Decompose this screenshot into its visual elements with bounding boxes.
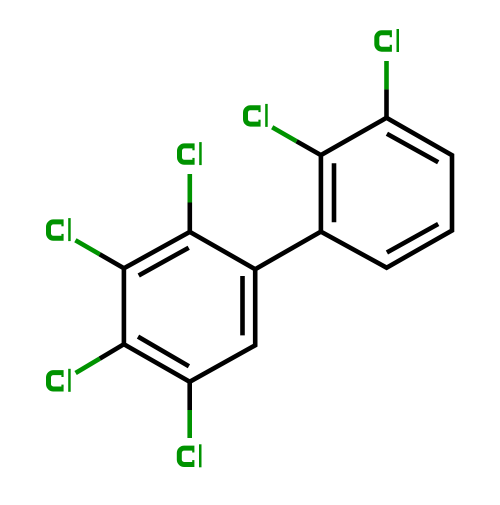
Cl label on C3	[49, 218, 70, 241]
left ring double bond C2=C3 inner line	[139, 248, 189, 276]
left ring double bond C6=C1 inner line	[240, 276, 245, 335]
right benzene ring outline	[321, 118, 452, 268]
Cl label on C4	[49, 369, 70, 392]
Cl label on C2'	[246, 104, 267, 127]
bond C3-Cl green half	[75, 240, 99, 254]
left benzene ring outline	[124, 232, 255, 382]
Cl label on C2	[180, 142, 201, 165]
right ring double bond C1'=C2' inner line	[332, 163, 337, 222]
bond C3'-Cl black half	[384, 89, 389, 117]
right ring double bond C3'=C4' inner line	[387, 134, 438, 163]
Cl label on C3'	[377, 29, 398, 52]
bond C5-Cl black half	[187, 382, 192, 410]
Cl label on C5	[179, 444, 200, 467]
biphenyl C1-C1' bond	[255, 232, 321, 270]
bond C4-Cl green half	[76, 359, 100, 373]
bond C4-Cl black half	[100, 344, 124, 358]
bond C2'-Cl black half	[297, 141, 321, 155]
bond C5-Cl green half	[187, 410, 192, 438]
bond C2-Cl green half	[188, 174, 193, 203]
bond C3-Cl black half	[100, 254, 124, 268]
bond C2-Cl black half	[188, 203, 193, 232]
bond C2'-Cl green half	[272, 127, 296, 141]
bond C3'-Cl green half	[384, 61, 389, 89]
left ring double bond C4=C5 inner line	[138, 337, 189, 367]
right ring double bond C5'=C6' inner line	[387, 224, 438, 253]
